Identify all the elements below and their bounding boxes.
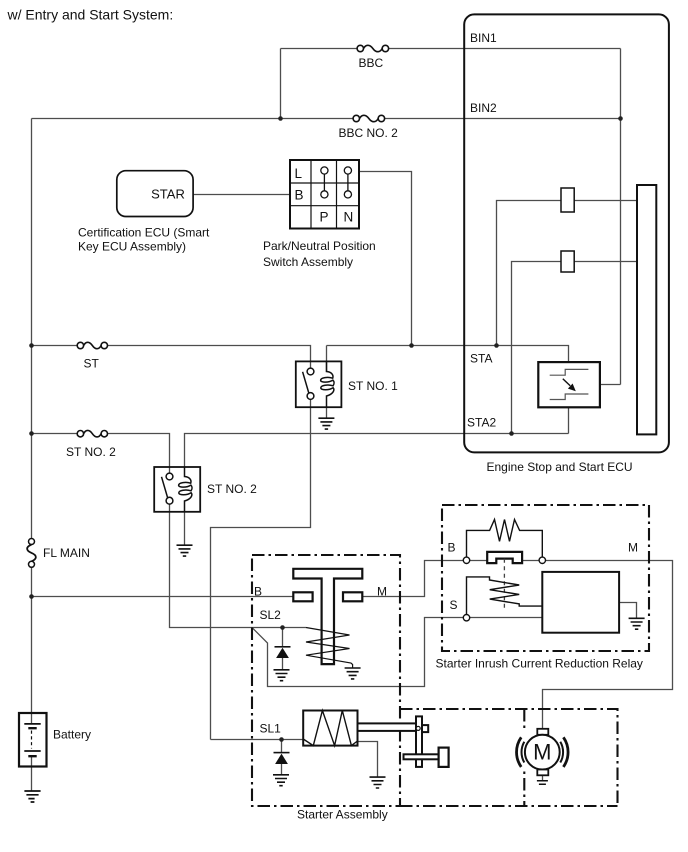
park/neutral switch contacts P column — [321, 167, 328, 198]
wire inrush relay B circle to contact — [470, 560, 488, 562]
ground below battery — [24, 791, 40, 802]
signal coupler step traces — [550, 369, 589, 399]
wire park/neutral switch output — [359, 172, 412, 346]
wire ST NO.2 coil to STA2 run — [185, 434, 569, 468]
park/neutral switch contacts N column — [344, 167, 351, 198]
svg-text:FL MAIN: FL MAIN — [43, 546, 90, 560]
wire BIN1 feed (BBC fuse run) — [281, 48, 621, 50]
svg-text:ST: ST — [84, 357, 100, 371]
starter B contact — [293, 592, 312, 601]
relay ST NO.1 switch — [303, 368, 314, 399]
wire ST NO.1 coil to STA run — [327, 346, 569, 373]
signal coupler arrow — [563, 379, 570, 386]
wire SL2 diode pins — [282, 628, 284, 670]
ground below SL2 coil — [345, 668, 361, 679]
svg-text:B: B — [254, 585, 262, 599]
svg-text:Starter Assembly: Starter Assembly — [297, 808, 388, 822]
starter inrush current reduction relay box (dash-dot) — [442, 505, 649, 651]
svg-text:M: M — [377, 585, 387, 599]
wire SL1 coil return to ground — [358, 742, 378, 777]
svg-text:Key ECU Assembly): Key ECU Assembly) — [78, 240, 186, 254]
wire motor ground pin — [542, 775, 544, 780]
wire BBC NO. 2 run to BIN2 — [32, 118, 621, 120]
svg-text:BBC NO. 2: BBC NO. 2 — [339, 126, 399, 140]
svg-text:Battery: Battery — [53, 728, 91, 742]
wire STAR to park/neutral switch — [193, 194, 290, 196]
svg-text:Park/Neutral Position: Park/Neutral Position — [263, 239, 376, 253]
svg-text:M: M — [533, 740, 551, 765]
svg-text:Switch Assembly: Switch Assembly — [263, 255, 353, 269]
wire ST NO.2 contact to SL2 — [170, 504, 307, 628]
SL1 diode D1 — [274, 752, 290, 754]
inrush relay mechanical link (dashed) — [503, 559, 505, 611]
wire inrush relay contact to M circle — [522, 560, 539, 562]
motor brushes right — [560, 742, 563, 763]
svg-text:B: B — [448, 541, 456, 555]
inrush relay driver module — [542, 572, 619, 633]
inrush relay terminal B circle — [463, 557, 469, 563]
wire ST NO.2 fuse run (left of relay) — [32, 434, 170, 474]
motor body circle — [525, 735, 560, 770]
inrush relay contact output circle — [539, 557, 545, 563]
wire ST NO.2 coil ground pin — [184, 512, 186, 545]
wire ST NO.1 coil ground pin — [326, 407, 328, 418]
inrush relay resistor — [467, 520, 543, 558]
svg-text:Engine Stop and Start ECU: Engine Stop and Start ECU — [487, 460, 633, 474]
SL1 plunger rod — [358, 723, 417, 731]
signal coupler U1 box — [538, 362, 600, 407]
svg-text:L: L — [295, 166, 303, 181]
wire left battery bus upper — [31, 119, 33, 539]
svg-text:M: M — [628, 541, 638, 555]
ground below ST NO.1 coil — [318, 418, 334, 429]
battery box — [19, 713, 47, 767]
ground for inrush relay module — [629, 618, 645, 629]
svg-text:BIN2: BIN2 — [470, 101, 497, 115]
starter assembly motor box (dash-dot) — [400, 709, 618, 806]
svg-text:S: S — [450, 598, 458, 612]
svg-text:SL1: SL1 — [260, 722, 282, 736]
wire vertical BIN1-to-BIN2 branch — [280, 49, 282, 119]
relay ST NO.1 coil — [321, 362, 334, 407]
SL2 diode D2 — [275, 646, 291, 648]
wire ST NO.1 contact to SL1 — [211, 400, 311, 740]
wire SL1 diode pins — [281, 740, 283, 775]
wire left battery bus lower — [31, 567, 33, 713]
Engine Stop and Start ECU box — [464, 14, 669, 452]
svg-text:ST NO. 2: ST NO. 2 — [66, 445, 116, 459]
SL2 coil spring — [306, 628, 353, 669]
battery plates — [24, 724, 40, 756]
svg-text:B: B — [295, 188, 304, 203]
svg-text:STAR: STAR — [151, 187, 185, 202]
relay ST NO.2 box — [154, 467, 200, 512]
motor bottom terminal — [537, 770, 548, 776]
relay ST NO.2 switch — [162, 473, 173, 504]
fuse BBC NO. 2 — [353, 115, 385, 121]
pinion gear — [439, 748, 449, 767]
wire ECU internal row 2 — [512, 262, 638, 434]
wire starter M contact to inrush relay B — [362, 561, 463, 597]
motor top terminal — [537, 729, 548, 735]
SL2 plunger T bar — [293, 569, 362, 664]
motor brushes left — [522, 742, 525, 763]
wire ST fuse run (left of relay) — [32, 346, 311, 369]
motor ground marks — [537, 781, 548, 785]
pinion shaft — [404, 754, 439, 759]
fuse ST NO. 2 — [77, 430, 107, 436]
STAR box (Certification ECU) — [117, 171, 193, 217]
starter assembly internal divider (dash-dot) — [523, 709, 525, 806]
svg-text:P: P — [320, 210, 329, 225]
inrush relay contact bridge — [487, 552, 522, 563]
ground below SL2 diode — [274, 670, 290, 681]
relay ST NO.1 box — [296, 361, 342, 407]
inrush relay terminal S circle — [463, 615, 469, 621]
svg-text:w/ Entry and Start System:: w/ Entry and Start System: — [7, 7, 174, 23]
fuse BBC — [357, 45, 389, 51]
motor background mask — [512, 731, 572, 771]
svg-text:N: N — [344, 210, 354, 225]
svg-text:ST NO. 1: ST NO. 1 — [348, 379, 398, 393]
svg-text:SL2: SL2 — [260, 608, 282, 622]
fork pivot circle — [416, 726, 420, 730]
ECU internal bus bar — [637, 185, 656, 434]
wire ECU internal row 1 — [497, 201, 638, 346]
wire coupler bottom pin — [568, 407, 570, 433]
wire driver module ground lead — [619, 603, 636, 619]
drive fork bar — [416, 716, 422, 767]
fusible link FL MAIN — [27, 539, 36, 568]
wire SL1 feed — [211, 739, 304, 741]
ECU connector block 2 — [561, 251, 574, 272]
ground below ST NO.2 coil — [177, 545, 193, 556]
starter assembly solenoid box (dash-dot) — [252, 555, 400, 806]
ground below SL1 diode — [273, 775, 289, 786]
wire inrush relay M out to motor — [543, 561, 673, 729]
ECU connector block 1 — [561, 188, 574, 212]
wire battery pins — [31, 713, 33, 791]
svg-text:STA2: STA2 — [467, 416, 496, 430]
SL1 coil zigzag — [303, 711, 357, 746]
fork tab — [422, 725, 428, 732]
svg-text:Certification ECU (Smart: Certification ECU (Smart — [78, 226, 210, 240]
wire battery bus to starter B contact — [32, 596, 294, 598]
svg-text:BIN1: BIN1 — [470, 31, 497, 45]
SL1 solenoid coil box — [303, 711, 357, 746]
svg-text:STA: STA — [470, 352, 492, 366]
starter M contact — [343, 592, 362, 601]
wire coupler right pin — [600, 384, 621, 386]
park/neutral position switch table — [290, 160, 359, 229]
svg-text:Starter Inrush Current Reducti: Starter Inrush Current Reduction Relay — [436, 657, 643, 671]
wire ECU internal vertical from BIN1 end down to coupler output — [620, 49, 622, 385]
wire inrush S to starter SL2 node — [252, 618, 463, 687]
fuse ST — [77, 342, 107, 348]
ground below SL1 coil return — [370, 777, 386, 788]
inrush relay coil — [467, 577, 543, 615]
wire inrush S circle into driver module — [470, 617, 543, 619]
svg-text:ST NO. 2: ST NO. 2 — [207, 482, 257, 496]
svg-text:BBC: BBC — [359, 56, 384, 70]
relay ST NO.2 coil — [179, 467, 192, 512]
